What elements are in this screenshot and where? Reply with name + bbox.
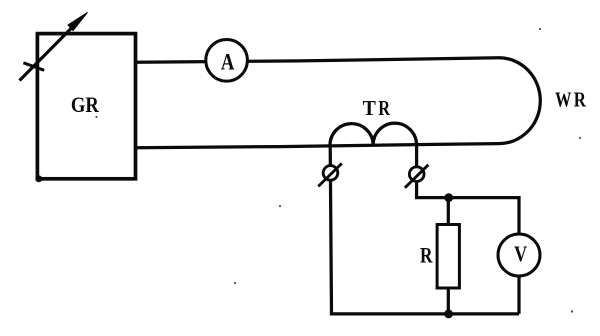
terminal symbol right: [405, 165, 428, 188]
wire resistor branch top: [447, 198, 450, 225]
voltmeter V: [498, 234, 540, 276]
svg-text:R: R: [420, 243, 433, 268]
generator GR box: [37, 34, 135, 179]
wire left tap down and bottom wire: [330, 145, 519, 314]
node junction top: [444, 193, 453, 202]
svg-text:R: R: [574, 88, 587, 112]
adjustment arrow on GR: [20, 12, 88, 80]
arrow cross tick: [23, 63, 44, 71]
transformer TR secondary humps: [330, 123, 417, 145]
wire main loop WR: [136, 58, 541, 148]
ammeter A: [206, 40, 248, 82]
svg-text:A: A: [221, 49, 235, 74]
svg-text:V: V: [514, 241, 527, 266]
svg-text:R: R: [378, 96, 390, 120]
wire voltmeter bottom to bottom wire: [517, 276, 520, 314]
wire resistor branch bottom: [447, 288, 450, 314]
scan specks: [95, 28, 581, 313]
svg-text:GR: GR: [71, 92, 100, 117]
wire right tap down and over to voltmeter: [417, 145, 519, 234]
resistor R: [437, 225, 459, 289]
node junction bottom: [444, 310, 453, 319]
svg-text:T: T: [363, 96, 377, 120]
svg-text:W: W: [555, 88, 572, 112]
ink blob at GR box corner: [35, 175, 42, 182]
terminal symbol left: [318, 163, 342, 186]
